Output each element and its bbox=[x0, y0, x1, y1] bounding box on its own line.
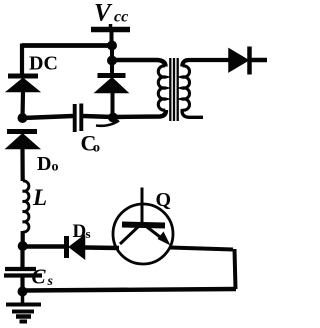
svg-text:C: C bbox=[32, 265, 47, 289]
Ds label bbox=[73, 221, 91, 242]
svg-text:D: D bbox=[37, 153, 51, 175]
inductor L bbox=[23, 181, 29, 232]
wire Co to transformer primary bottom bbox=[83, 110, 166, 117]
node junction J3 with flourish bbox=[96, 113, 119, 126]
wire right edge vertical bbox=[235, 249, 236, 289]
node junction J1b bbox=[107, 56, 117, 66]
svg-text:D: D bbox=[73, 221, 87, 242]
wire secondary bottom lead bbox=[182, 109, 203, 117]
capacitor Cs bbox=[4, 269, 42, 276]
wire J2 to capacitor Co bbox=[23, 116, 74, 118]
svg-text:L: L bbox=[32, 185, 47, 210]
Vcc supply bar bbox=[91, 24, 130, 45]
wire Do to inductor bbox=[20, 148, 24, 181]
wire J1 to top-left corner bbox=[22, 43, 112, 48]
transformer T1 core bbox=[170, 58, 177, 121]
svg-text:o: o bbox=[93, 141, 100, 156]
svg-text:DC: DC bbox=[29, 53, 58, 75]
wire J1 down to J1b bbox=[110, 45, 114, 61]
diode D1 (DC, pointing up) bbox=[7, 76, 39, 92]
diode D3 (output, pointing right) bbox=[229, 47, 250, 75]
transistor Q bbox=[113, 188, 173, 265]
Co label bbox=[81, 131, 101, 156]
wire J1b to transformer primary top bbox=[112, 60, 166, 67]
wire J4 down to Cs bbox=[20, 247, 24, 268]
wire D1 to J2 bbox=[20, 91, 25, 119]
node junction J1 bbox=[107, 41, 117, 51]
bottom rail wire bbox=[22, 289, 236, 291]
node junction J5 bbox=[18, 287, 28, 297]
wire D3 to right edge bbox=[249, 58, 267, 63]
diode D_o (left branch second, pointing up) bbox=[7, 132, 40, 149]
wire Cs to J5 bbox=[20, 276, 24, 291]
wire Ds to transistor bbox=[85, 245, 119, 250]
diode Ds (pointing left) bbox=[67, 236, 85, 259]
transformer T1 secondary winding bbox=[182, 66, 189, 110]
transformer T1 primary winding bbox=[158, 66, 165, 110]
Cs label bbox=[32, 265, 54, 290]
wire transistor emitter to right edge corner bbox=[170, 248, 233, 250]
wire left vertical top bbox=[20, 44, 24, 76]
svg-text:V: V bbox=[94, 0, 113, 27]
Vcc label bbox=[94, 0, 128, 27]
svg-text:Q: Q bbox=[156, 189, 172, 211]
node junction J4 bbox=[18, 241, 28, 251]
wire J4 to Ds bbox=[23, 244, 64, 249]
ground bbox=[6, 291, 41, 322]
svg-text:s: s bbox=[86, 226, 91, 241]
Do label bbox=[37, 153, 59, 175]
diode D2 (right branch, pointing up) bbox=[96, 60, 128, 118]
svg-text:cc: cc bbox=[114, 9, 128, 26]
svg-text:o: o bbox=[52, 160, 59, 175]
node junction J2 bbox=[18, 113, 28, 123]
wire L to J4 bbox=[21, 231, 25, 247]
svg-text:s: s bbox=[47, 274, 54, 289]
capacitor C_o bbox=[75, 104, 82, 133]
wire secondary top to diode D3 bbox=[182, 60, 229, 67]
